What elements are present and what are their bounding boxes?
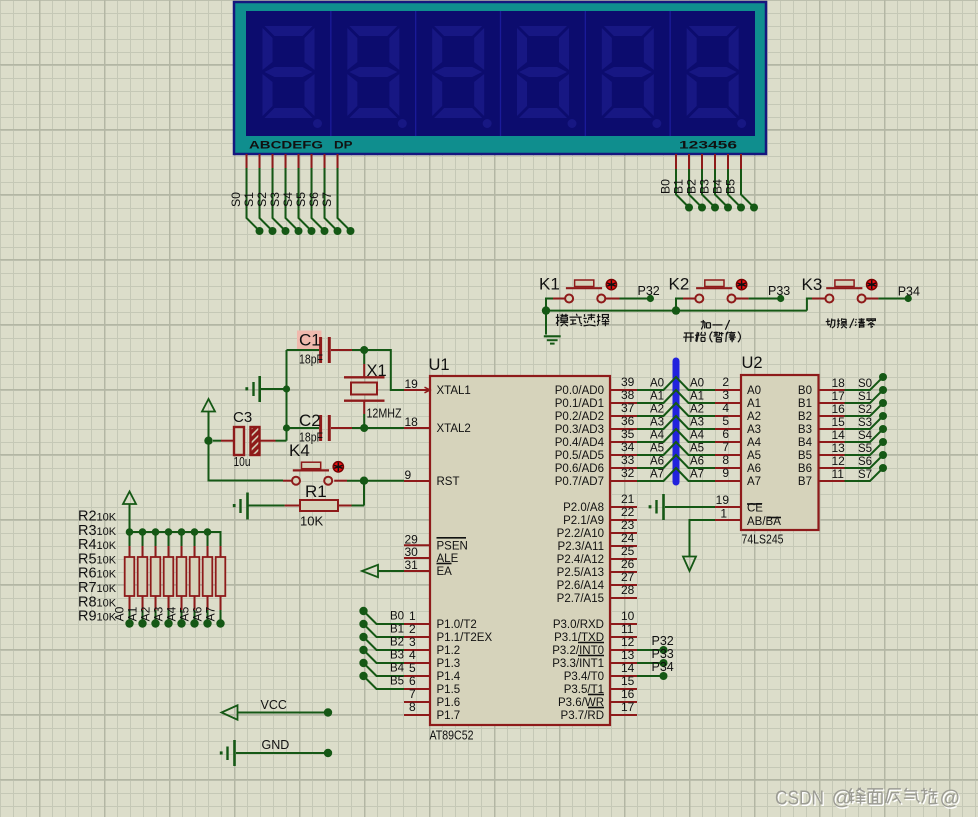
svg-text:A5: A5 <box>690 443 704 455</box>
svg-text:P1.7: P1.7 <box>437 710 461 722</box>
svg-text:A4: A4 <box>650 430 665 442</box>
svg-text:P2.7/A15: P2.7/A15 <box>557 593 604 605</box>
svg-text:P0.4/AD4: P0.4/AD4 <box>555 437 605 449</box>
svg-text:10K: 10K <box>97 512 117 524</box>
svg-text:C1: C1 <box>299 331 321 350</box>
svg-text:6: 6 <box>409 674 416 688</box>
svg-text:S3: S3 <box>858 417 872 429</box>
svg-text:13: 13 <box>621 648 635 662</box>
svg-text:@: @ <box>832 787 853 810</box>
svg-text:39: 39 <box>621 375 635 389</box>
svg-text:34: 34 <box>621 440 635 454</box>
svg-text:26: 26 <box>621 557 635 571</box>
svg-text:ABCDEFG: ABCDEFG <box>249 140 323 152</box>
svg-text:X1: X1 <box>367 362 387 380</box>
svg-text:S0: S0 <box>858 378 872 390</box>
svg-text:P1.5: P1.5 <box>437 684 461 696</box>
svg-text:A7: A7 <box>204 606 218 621</box>
svg-text:A5: A5 <box>747 450 761 462</box>
svg-text:B2: B2 <box>798 411 812 423</box>
svg-text:A3: A3 <box>152 606 166 621</box>
svg-text:A2: A2 <box>139 606 153 621</box>
svg-text:S6: S6 <box>307 192 321 207</box>
svg-text:A3: A3 <box>747 424 761 436</box>
svg-text:P2.1/A9: P2.1/A9 <box>563 515 604 527</box>
svg-text:P3.7/RD: P3.7/RD <box>561 710 604 722</box>
svg-text:P0.2/AD2: P0.2/AD2 <box>555 411 604 423</box>
svg-text:2: 2 <box>722 375 729 389</box>
svg-text:B0: B0 <box>798 385 812 397</box>
svg-text:A5: A5 <box>178 606 192 621</box>
svg-text:A4: A4 <box>690 430 705 442</box>
svg-text:A4: A4 <box>747 437 762 449</box>
svg-text:14: 14 <box>832 428 846 442</box>
svg-text:P34: P34 <box>652 660 674 674</box>
svg-text:30: 30 <box>405 545 419 559</box>
svg-text:C2: C2 <box>299 411 321 430</box>
svg-text:19: 19 <box>405 377 419 391</box>
svg-text:A2: A2 <box>690 404 704 416</box>
svg-text:P1.4: P1.4 <box>437 671 461 683</box>
svg-text:A1: A1 <box>747 398 761 410</box>
svg-text:B4: B4 <box>711 179 725 194</box>
svg-text:1: 1 <box>720 507 727 521</box>
svg-text:A7: A7 <box>747 476 761 488</box>
svg-text:10K: 10K <box>97 554 117 566</box>
svg-text:15: 15 <box>832 415 846 429</box>
svg-text:4: 4 <box>409 648 416 662</box>
svg-text:U1: U1 <box>429 356 450 374</box>
svg-text:B0: B0 <box>390 611 404 623</box>
svg-text:P0.3/AD3: P0.3/AD3 <box>555 424 604 436</box>
svg-text:12: 12 <box>621 635 635 649</box>
svg-text:32: 32 <box>621 466 635 480</box>
svg-text:DP: DP <box>334 140 353 152</box>
svg-text:18: 18 <box>832 376 846 390</box>
svg-text:@: @ <box>940 787 961 810</box>
svg-text:A1: A1 <box>650 391 664 403</box>
svg-text:VCC: VCC <box>261 698 287 712</box>
svg-text:15: 15 <box>621 674 635 688</box>
svg-text:K2: K2 <box>669 275 690 294</box>
svg-text:9: 9 <box>405 468 412 482</box>
svg-text:3: 3 <box>409 635 416 649</box>
svg-text:A6: A6 <box>747 463 761 475</box>
svg-text:CSDN: CSDN <box>775 787 824 810</box>
svg-text:12: 12 <box>832 454 846 468</box>
svg-text:P0.0/AD0: P0.0/AD0 <box>555 385 604 397</box>
svg-text:K4: K4 <box>289 441 310 460</box>
svg-text:A4: A4 <box>165 606 179 621</box>
svg-text:38: 38 <box>621 388 635 402</box>
svg-text:P2.2/A10: P2.2/A10 <box>557 528 604 540</box>
svg-text:P1.3: P1.3 <box>437 658 461 670</box>
svg-text:24: 24 <box>621 531 635 545</box>
svg-text:10K: 10K <box>97 540 117 552</box>
svg-text:A0: A0 <box>650 378 664 390</box>
svg-text:B3: B3 <box>390 650 404 662</box>
svg-text:R1: R1 <box>305 482 327 501</box>
svg-text:A3: A3 <box>650 417 664 429</box>
svg-text:A1: A1 <box>126 606 140 621</box>
svg-text:123456: 123456 <box>679 140 737 152</box>
svg-text:P0.7/AD7: P0.7/AD7 <box>555 476 604 488</box>
svg-text:A6: A6 <box>191 606 205 621</box>
svg-text:11: 11 <box>832 467 845 481</box>
svg-text:P1.1/T2EX: P1.1/T2EX <box>437 632 493 644</box>
svg-text:7: 7 <box>722 440 729 454</box>
svg-text:A3: A3 <box>690 417 704 429</box>
svg-text:XTAL1: XTAL1 <box>437 385 471 397</box>
svg-text:22: 22 <box>621 505 635 519</box>
svg-text:B5: B5 <box>724 179 738 194</box>
svg-text:C3: C3 <box>233 409 252 426</box>
svg-text:B1: B1 <box>798 398 812 410</box>
svg-text:S7: S7 <box>858 469 872 481</box>
svg-text:10K: 10K <box>97 526 117 538</box>
svg-text:25: 25 <box>621 544 635 558</box>
svg-text:13: 13 <box>832 441 846 455</box>
svg-text:P2.0/A8: P2.0/A8 <box>563 502 604 514</box>
svg-text:B5: B5 <box>390 676 404 688</box>
svg-text:P32: P32 <box>638 284 660 298</box>
svg-text:18pF: 18pF <box>299 352 323 367</box>
svg-text:B5: B5 <box>798 450 812 462</box>
svg-text:S5: S5 <box>858 443 872 455</box>
svg-text:B0: B0 <box>659 179 673 194</box>
svg-text:P2.4/A12: P2.4/A12 <box>557 554 604 566</box>
svg-text:10K: 10K <box>97 612 117 624</box>
svg-text:5: 5 <box>722 414 729 428</box>
svg-text:10K: 10K <box>97 583 117 595</box>
svg-text:19: 19 <box>716 493 730 507</box>
svg-text:S6: S6 <box>858 456 872 468</box>
svg-text:35: 35 <box>621 427 635 441</box>
svg-text:A5: A5 <box>650 443 664 455</box>
svg-text:P1.6: P1.6 <box>437 697 461 709</box>
svg-text:AT89C52: AT89C52 <box>430 728 474 743</box>
svg-text:10K: 10K <box>97 569 117 581</box>
svg-text:10: 10 <box>621 609 635 623</box>
svg-text:P33: P33 <box>768 284 790 298</box>
svg-text:A1: A1 <box>690 391 704 403</box>
svg-text:8: 8 <box>722 453 729 467</box>
svg-text:33: 33 <box>621 453 635 467</box>
svg-text:R9: R9 <box>78 609 97 625</box>
svg-text:B1: B1 <box>672 179 686 194</box>
svg-text:4: 4 <box>722 401 729 415</box>
svg-text:11: 11 <box>621 622 634 636</box>
svg-text:17: 17 <box>621 700 635 714</box>
svg-text:S2: S2 <box>255 192 269 207</box>
svg-text:P0.5/AD5: P0.5/AD5 <box>555 450 604 462</box>
svg-text:36: 36 <box>621 414 635 428</box>
svg-text:S4: S4 <box>281 192 295 207</box>
svg-text:23: 23 <box>621 518 635 532</box>
svg-text:2: 2 <box>409 622 416 636</box>
svg-text:P33: P33 <box>652 647 674 661</box>
svg-text:B3: B3 <box>698 179 712 194</box>
svg-text:A2: A2 <box>650 404 664 416</box>
svg-text:A7: A7 <box>690 469 704 481</box>
svg-text:21: 21 <box>621 492 635 506</box>
svg-text:16: 16 <box>832 402 846 416</box>
svg-text:12MHZ: 12MHZ <box>367 406 402 421</box>
svg-text:B4: B4 <box>390 663 405 675</box>
svg-text:S1: S1 <box>242 192 256 207</box>
svg-text:A7: A7 <box>650 469 664 481</box>
svg-text:9: 9 <box>722 466 729 480</box>
svg-text:P34: P34 <box>898 285 920 299</box>
svg-text:B6: B6 <box>798 463 812 475</box>
svg-text:17: 17 <box>832 389 846 403</box>
svg-text:P3.4/T0: P3.4/T0 <box>564 671 604 683</box>
svg-text:7: 7 <box>409 687 416 701</box>
svg-text:A2: A2 <box>747 411 761 423</box>
svg-text:8: 8 <box>409 700 416 714</box>
svg-text:14: 14 <box>621 661 635 675</box>
svg-text:S5: S5 <box>294 192 308 207</box>
svg-text:A0: A0 <box>747 385 761 397</box>
svg-text:B7: B7 <box>798 476 812 488</box>
svg-text:16: 16 <box>621 687 635 701</box>
svg-text:B3: B3 <box>798 424 812 436</box>
svg-text:5: 5 <box>409 661 416 675</box>
svg-text:10u: 10u <box>234 454 251 469</box>
svg-text:37: 37 <box>621 401 635 415</box>
svg-text:P1.0/T2: P1.0/T2 <box>437 619 477 631</box>
svg-text:B2: B2 <box>685 179 699 194</box>
svg-text:27: 27 <box>621 570 635 584</box>
svg-text:GND: GND <box>262 738 290 752</box>
svg-text:EA: EA <box>437 566 453 578</box>
svg-text:B1: B1 <box>390 624 404 636</box>
svg-text:P2.3/A11: P2.3/A11 <box>558 541 604 553</box>
svg-text:74LS245: 74LS245 <box>742 532 784 547</box>
svg-text:RST: RST <box>437 476 460 488</box>
svg-text:P0.6/AD6: P0.6/AD6 <box>555 463 604 475</box>
svg-text:B4: B4 <box>798 437 813 449</box>
svg-text:P32: P32 <box>652 634 674 648</box>
svg-text:S1: S1 <box>858 391 872 403</box>
svg-text:P2.6/A14: P2.6/A14 <box>557 580 605 592</box>
svg-text:31: 31 <box>405 558 419 572</box>
svg-text:3: 3 <box>722 388 729 402</box>
svg-text:P2.5/A13: P2.5/A13 <box>557 567 604 579</box>
svg-text:10K: 10K <box>97 597 117 609</box>
svg-text:10K: 10K <box>300 514 323 529</box>
svg-text:P1.2: P1.2 <box>437 645 461 657</box>
svg-text:B2: B2 <box>390 637 404 649</box>
svg-text:K3: K3 <box>802 275 823 294</box>
svg-text:P3.0/RXD: P3.0/RXD <box>553 619 604 631</box>
svg-text:6: 6 <box>722 427 729 441</box>
svg-text:S7: S7 <box>320 192 334 207</box>
svg-text:18: 18 <box>405 415 419 429</box>
svg-text:S0: S0 <box>229 192 243 207</box>
svg-text:PSEN: PSEN <box>437 540 468 552</box>
svg-text:S3: S3 <box>268 192 282 207</box>
svg-text:P3.3/INT1: P3.3/INT1 <box>552 658 604 670</box>
svg-text:K1: K1 <box>539 275 560 294</box>
svg-text:1: 1 <box>409 609 416 623</box>
svg-text:A6: A6 <box>650 456 664 468</box>
svg-text:U2: U2 <box>742 354 763 372</box>
svg-text:S2: S2 <box>858 404 872 416</box>
svg-text:XTAL2: XTAL2 <box>437 423 471 435</box>
svg-text:A0: A0 <box>690 378 704 390</box>
svg-text:A6: A6 <box>690 456 704 468</box>
svg-text:P0.1/AD1: P0.1/AD1 <box>555 398 604 410</box>
svg-text:28: 28 <box>621 583 635 597</box>
